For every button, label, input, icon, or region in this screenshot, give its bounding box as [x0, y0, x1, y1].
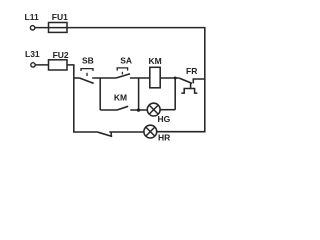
svg-text:KM: KM	[114, 93, 127, 103]
svg-text:HG: HG	[158, 114, 171, 124]
svg-text:SA: SA	[120, 55, 132, 65]
svg-text:SB: SB	[82, 55, 94, 65]
svg-text:HR: HR	[158, 133, 170, 143]
svg-text:KM: KM	[149, 56, 162, 66]
svg-text:L31: L31	[25, 49, 40, 59]
svg-text:L11: L11	[25, 12, 39, 22]
svg-text:FU1: FU1	[52, 12, 68, 22]
svg-text:FR: FR	[186, 66, 197, 76]
svg-text:FU2: FU2	[53, 50, 69, 60]
